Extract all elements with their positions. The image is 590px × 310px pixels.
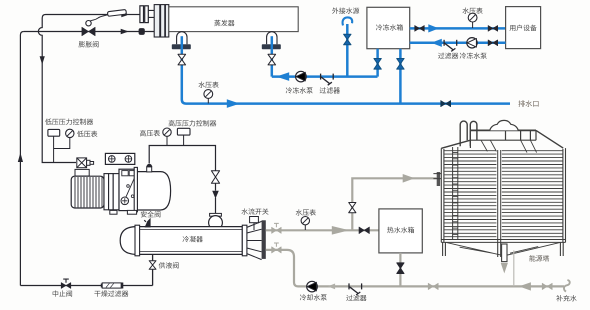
tower inlet flange [437,172,440,186]
tower outlet stub [502,244,507,262]
external water valve [344,34,351,45]
evaporator right leg [267,32,277,44]
chilled water tank 冷冻水箱 [367,7,410,48]
makeup valve [542,283,552,289]
compressor feet [110,210,137,214]
safety valve symbol [145,218,151,228]
pipe tower outlet [503,258,505,262]
drain water gauge stem [207,98,209,103]
compressor coupling rings [104,174,119,210]
label stop valve label 中止阀 [53,290,72,296]
label cooling gauge label 水压表 [296,209,316,215]
cooling valve [428,283,438,289]
pipe riser to tower (x=352.3) [352,178,436,230]
condenser water box cone [247,221,262,259]
label condenser 冷凝器 [183,236,203,242]
label water flow switch 水流开关 [241,208,268,214]
water flow switch [250,217,259,223]
pipe return from user (y=42.8) [410,42,506,45]
tower center posts [498,150,501,242]
tower bottom band [441,240,565,243]
condenser inlet valve [272,247,282,253]
drain valve [441,101,451,107]
low pressure gauge 低压表 [66,129,74,137]
liquid supply valve 供液阀 [149,261,156,270]
flow arrow cooling supply [332,226,350,235]
pipe condenser outlet top (y=230.3) [266,229,379,231]
wire suction top line [38,15,121,163]
pipe connector bolt [139,28,145,35]
wire liquid riser left (x=20.4) [20,32,24,286]
condenser nozzle flange [262,220,266,259]
label cooling strainer label 过滤器 [346,295,366,301]
pipe coupling flange pair [140,6,148,23]
tower louvers right [502,150,563,152]
flow arrow down discharge [212,191,219,199]
wire discharge line [149,146,215,171]
cooling tower left wall [441,148,444,242]
cooling gauge stem [304,225,306,230]
wire discharge drop [215,183,217,215]
label low pressure gauge label 低压表 [77,131,97,137]
tank outlet 1 valve [374,59,381,70]
tower louvers left [444,150,496,152]
condenser shell [140,227,243,255]
label external water label 外接水源 [332,7,359,13]
cooling tower right wall [563,148,566,242]
cooling water gauge 水压表 [301,217,309,225]
flow arrow makeup join [519,282,531,290]
flow arrow to tower [403,174,415,183]
tower roof right slant [536,130,563,148]
flow arrow down on suction drop [40,56,45,64]
label user equipment label 用户设备 [510,25,537,31]
label chilled pump label 冷冻水泵 [286,87,313,93]
makeup water squiggle [564,280,570,292]
wire LP gauge stem [54,138,70,149]
drain water gauge 水压表 [204,90,213,99]
label hot tank label 热水水箱 [387,227,414,233]
wire expansion valve line (y=31.3) [24,31,154,33]
external water supply pipe [343,17,353,25]
compressor motor (ribbed) [71,176,104,208]
label high pressure controller 高压压力控制器 [169,120,217,126]
tower ladder [453,147,458,240]
discharge fitting [147,167,152,172]
tower deck struts [481,140,537,152]
flow arrow up on liquid riser [18,153,23,162]
tower overflow line [513,250,515,286]
label expansion valve 膨胀阀 [79,41,99,47]
pipe tank outlet 2 [399,49,402,104]
pipe blue stem right leg [271,36,274,49]
chilled water pump 冷冻水泵 [296,71,307,82]
label strainer label 过滤器 [320,87,340,93]
evaporator head plates [154,5,169,37]
label makeup water label 补充水 [556,295,576,301]
hot water tank 热水水箱 [379,209,422,253]
pipe blue pump suction (y=76.6) [272,49,378,76]
pipe supply to user (y=28.4) [410,27,506,30]
tower vent pipe 2 [470,121,477,146]
label drier filter label 干燥过滤器 [94,290,128,296]
label supply gauge label 水压表 [462,8,482,14]
riser valve [349,203,356,213]
label cooling pump label 冷却水泵 [300,294,327,300]
hot tank outlet valve [397,263,404,274]
label return strainer label 过滤器 [438,53,458,59]
wire coupling to evaporator head [148,10,154,17]
pipe cooling bottom main (y=286.4) [266,250,564,287]
tower fan deck top [470,129,536,131]
pipe hot tank outlet [399,253,401,287]
evaporator shell 蒸发器 [169,7,298,32]
flow arrow right on top line [121,12,129,17]
cooling pump 冷却水泵 [307,281,318,292]
wire HP gauge stem [166,136,168,145]
wire top line arrow to coupling [128,14,140,16]
label return pump label 冷冻水泵 [460,52,487,58]
supply valve 1 [415,26,425,32]
label safety valve 安全阀 [141,211,161,217]
compressor suction valve [75,158,94,176]
flow arrow return [431,39,442,47]
flow arrow to evaporator leg [276,72,289,81]
flow arrow drain [227,99,240,108]
tower inlet stub [433,174,441,179]
expansion valve capillary [90,15,108,21]
compressor oil separator tank [137,172,170,210]
high pressure gauge 高压表 [163,128,171,136]
supply valve 2 [488,26,498,32]
evaporator left leg flange [172,44,191,49]
tower legs [443,242,564,257]
cooling outlet valve [272,227,282,233]
user equipment box 用户设备 [506,7,541,49]
expansion valve body [82,27,95,36]
expansion valve actuator [86,21,91,26]
label high pressure gauge label 高压表 [140,130,160,136]
compressor top bracket [105,153,134,164]
label tower label 能源塔 [529,255,549,261]
compressor body block [119,169,137,210]
pipe blue drain main [182,49,510,103]
flow arrow small cooling [328,284,336,290]
pipe tank outlet 1 [376,49,379,77]
tower fan deck [470,130,536,148]
drier filter 干燥过滤器 [102,283,121,288]
label drain gauge label 水压表 [198,82,218,88]
flow arrow tower outlet down [501,263,508,274]
label evaporator label 蒸发器 [214,20,234,26]
tower roof left slant [441,140,470,148]
condenser left cap [120,227,135,255]
condenser right flange [242,225,247,256]
label low pressure controller 低压压力控制器 [45,118,93,124]
wire HP controller stem [183,135,185,145]
evaporator right leg flange [262,44,281,49]
supply water gauge 水压表 [468,13,477,22]
label drain outlet 排水口 [518,100,538,107]
tank outlet 2 valve [397,59,404,70]
muffler [210,213,222,216]
right leg drain valve [268,54,276,65]
strainer symbol [320,74,322,80]
return valve [488,40,498,46]
tower basin funnel [446,242,560,255]
evaporator left leg [177,32,187,45]
discharge valve [211,171,219,184]
compressor tank flange [134,167,137,211]
pipe blue stem left leg [181,36,184,49]
sensing bulb [107,9,126,16]
wire liquid line from condenser [20,254,152,285]
tower vent pipe 1 [460,121,467,146]
supply gauge stem [472,22,474,28]
label chilled tank label 冷冻水箱 [376,24,403,30]
wire LP controller stem [53,136,55,162]
low pressure controller box [48,129,60,136]
condenser left flange [135,225,140,256]
tower fan dome [490,120,519,130]
return strainer [443,40,445,46]
flow arrow right before evaporator [121,29,129,34]
left leg drain valve [178,54,186,65]
high pressure controller box [177,128,190,135]
stop valve 中止阀 [61,283,71,289]
flow arrow supply [428,24,439,32]
hot tank inlet valve [359,227,369,234]
label liquid supply valve label 供液阀 [159,262,179,268]
return pump 冷冻水泵 [467,38,477,48]
cooling strainer [348,283,350,289]
